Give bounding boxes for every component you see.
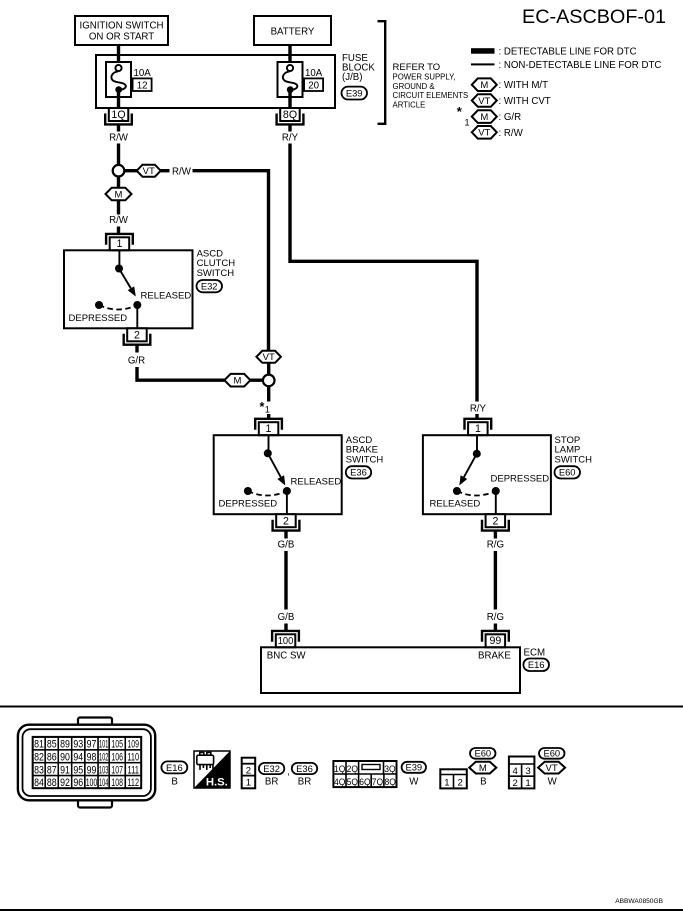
svg-text:R/Y: R/Y <box>470 404 487 415</box>
svg-text:R/G: R/G <box>487 612 504 623</box>
svg-text:RELEASED: RELEASED <box>430 499 481 510</box>
svg-text:1: 1 <box>266 423 272 435</box>
svg-text:3: 3 <box>525 766 530 777</box>
svg-text:G/B: G/B <box>278 540 295 551</box>
svg-text:E39: E39 <box>346 87 363 98</box>
svg-text:E16: E16 <box>528 659 545 670</box>
svg-text:RELEASED: RELEASED <box>141 291 192 302</box>
svg-text:98: 98 <box>87 752 97 764</box>
svg-text:GROUND &: GROUND & <box>393 82 436 91</box>
svg-text:VT: VT <box>478 96 490 107</box>
svg-text:BR: BR <box>298 777 311 788</box>
svg-text:H.S.: H.S. <box>206 777 228 789</box>
svg-text:E60: E60 <box>474 748 491 759</box>
svg-text:IGNITION SWITCH: IGNITION SWITCH <box>80 21 164 32</box>
svg-text:5Q: 5Q <box>347 777 358 788</box>
svg-text:DEPRESSED: DEPRESSED <box>491 473 550 484</box>
svg-text:B: B <box>480 777 486 788</box>
svg-text:E60: E60 <box>559 467 576 478</box>
svg-text:ABBWA0850GB: ABBWA0850GB <box>615 898 663 905</box>
svg-text:ON OR START: ON OR START <box>89 32 154 43</box>
svg-text:EC-ASCBOF-01: EC-ASCBOF-01 <box>522 6 666 28</box>
svg-text:100: 100 <box>278 636 294 647</box>
svg-text:: NON-DETECTABLE LINE FOR DTC: : NON-DETECTABLE LINE FOR DTC <box>499 60 662 71</box>
svg-text:: G/R: : G/R <box>499 112 522 123</box>
svg-text:103: 103 <box>99 764 108 776</box>
svg-text:VT: VT <box>143 166 155 177</box>
svg-text:1: 1 <box>475 423 481 435</box>
svg-text:: WITH CVT: : WITH CVT <box>499 96 551 107</box>
svg-text:: DETECTABLE LINE FOR DTC: : DETECTABLE LINE FOR DTC <box>499 46 637 57</box>
svg-text:90: 90 <box>60 752 70 764</box>
svg-text:81: 81 <box>34 739 44 751</box>
svg-text:2: 2 <box>513 778 518 789</box>
svg-text:R/W: R/W <box>172 166 192 177</box>
svg-text:E32: E32 <box>201 281 218 292</box>
svg-text:83: 83 <box>34 764 44 776</box>
svg-text:,: , <box>287 767 290 778</box>
svg-text:99: 99 <box>490 635 502 647</box>
svg-text:SWITCH: SWITCH <box>555 454 593 465</box>
svg-text:20: 20 <box>308 80 319 91</box>
svg-text:82: 82 <box>34 752 44 764</box>
svg-text:M: M <box>480 80 488 91</box>
svg-text:1: 1 <box>265 405 270 415</box>
svg-text:R/Y: R/Y <box>282 133 299 144</box>
svg-text:M: M <box>115 189 123 200</box>
svg-text:DEPRESSED: DEPRESSED <box>219 499 278 510</box>
svg-text:*: * <box>260 400 265 414</box>
svg-text:BNC SW: BNC SW <box>267 651 307 662</box>
svg-text:12: 12 <box>137 80 148 91</box>
svg-text:3Q: 3Q <box>384 764 395 775</box>
svg-text:1: 1 <box>465 117 470 127</box>
svg-text:E39: E39 <box>405 762 422 773</box>
svg-text:REFER TO: REFER TO <box>393 62 441 73</box>
svg-text:1Q: 1Q <box>111 109 125 121</box>
svg-text:101: 101 <box>99 739 108 751</box>
svg-text:R/G: R/G <box>487 540 504 551</box>
svg-text:1Q: 1Q <box>334 764 345 775</box>
svg-text:(J/B): (J/B) <box>342 72 362 83</box>
svg-text:105: 105 <box>111 739 123 751</box>
svg-text:SWITCH: SWITCH <box>197 268 235 279</box>
svg-text:4: 4 <box>513 766 519 777</box>
svg-text:2Q: 2Q <box>347 764 358 775</box>
svg-text:SWITCH: SWITCH <box>346 454 384 465</box>
svg-text:W: W <box>409 777 419 788</box>
svg-text:E60: E60 <box>543 748 560 759</box>
svg-text:2: 2 <box>246 766 251 777</box>
svg-text:R/W: R/W <box>109 215 129 226</box>
svg-text:: WITH M/T: : WITH M/T <box>499 80 549 91</box>
svg-text:8Q: 8Q <box>283 109 297 121</box>
svg-text:1: 1 <box>525 778 530 789</box>
svg-text:ECM: ECM <box>524 648 546 659</box>
svg-text:2: 2 <box>283 515 289 527</box>
svg-text:7Q: 7Q <box>372 777 383 788</box>
svg-text:BR: BR <box>265 777 278 788</box>
svg-text:111: 111 <box>127 764 139 776</box>
svg-text:10A: 10A <box>134 68 152 79</box>
svg-text:6Q: 6Q <box>359 777 370 788</box>
svg-text:1: 1 <box>116 238 122 250</box>
svg-text:1: 1 <box>246 778 251 789</box>
svg-text:2: 2 <box>134 330 140 342</box>
svg-text:1: 1 <box>444 778 449 789</box>
svg-text:87: 87 <box>47 764 57 776</box>
svg-text:86: 86 <box>47 752 57 764</box>
svg-text:2: 2 <box>458 778 463 789</box>
svg-text:10A: 10A <box>305 68 323 79</box>
svg-text:2: 2 <box>492 515 498 527</box>
svg-text:106: 106 <box>111 752 123 764</box>
svg-text:B: B <box>171 777 177 788</box>
svg-text:VT: VT <box>546 763 558 774</box>
svg-text:M: M <box>233 376 241 387</box>
svg-text:97: 97 <box>87 739 97 751</box>
svg-text:E36: E36 <box>296 763 313 774</box>
svg-text:93: 93 <box>73 739 83 751</box>
svg-text:DEPRESSED: DEPRESSED <box>69 313 128 324</box>
svg-text:W: W <box>548 777 558 788</box>
svg-text:109: 109 <box>127 739 139 751</box>
svg-text:RELEASED: RELEASED <box>291 477 342 488</box>
svg-text:89: 89 <box>60 739 70 751</box>
svg-text:4Q: 4Q <box>334 777 345 788</box>
svg-text:85: 85 <box>47 739 57 751</box>
svg-text:8Q: 8Q <box>385 777 396 788</box>
svg-text:BRAKE: BRAKE <box>478 651 511 662</box>
svg-text:107: 107 <box>111 764 123 776</box>
svg-text:ARTICLE: ARTICLE <box>393 100 426 109</box>
svg-text:110: 110 <box>127 752 139 764</box>
svg-text:M: M <box>479 763 487 774</box>
svg-text:E36: E36 <box>350 467 367 478</box>
svg-text:: R/W: : R/W <box>499 128 524 139</box>
svg-text:G/R: G/R <box>128 356 145 367</box>
svg-text:BATTERY: BATTERY <box>271 27 315 38</box>
svg-text:R/W: R/W <box>109 133 129 144</box>
svg-text:POWER SUPPLY,: POWER SUPPLY, <box>393 73 456 82</box>
svg-text:VT: VT <box>263 352 275 363</box>
svg-text:M: M <box>480 112 488 123</box>
svg-text:CIRCUIT ELEMENTS: CIRCUIT ELEMENTS <box>393 91 469 100</box>
svg-text:95: 95 <box>73 764 83 776</box>
svg-text:E16: E16 <box>166 762 183 773</box>
svg-text:G/B: G/B <box>278 612 295 623</box>
svg-text:99: 99 <box>87 764 97 776</box>
svg-text:94: 94 <box>73 752 83 764</box>
svg-text:VT: VT <box>478 128 490 139</box>
svg-text:E32: E32 <box>263 763 280 774</box>
svg-text:91: 91 <box>60 764 70 776</box>
svg-text:102: 102 <box>99 752 108 764</box>
